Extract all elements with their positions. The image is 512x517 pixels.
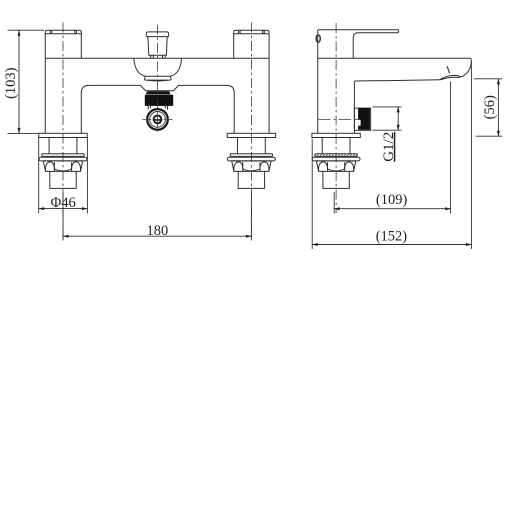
- svg-text:(152): (152): [376, 228, 408, 244]
- body bridge underside with diverter boss: [81, 85, 234, 133]
- dimension (103): [8, 30, 45, 133]
- right mounting base: [227, 133, 275, 188]
- left mounting base: [39, 133, 87, 188]
- side mounting base: [312, 133, 360, 188]
- diverter pull knob cap: [146, 32, 168, 37]
- right leg outer edge: [268, 58, 270, 133]
- side washer hatching: [314, 154, 358, 156]
- dimension (109): [334, 82, 450, 214]
- dimension (152): [312, 61, 471, 249]
- dimension 180: [63, 192, 251, 241]
- left leg centerline: [62, 23, 64, 239]
- left handle block: [45, 30, 81, 58]
- dimension Phi46: [39, 137, 88, 214]
- svg-text:(103): (103): [3, 67, 19, 99]
- right handle block: [234, 30, 269, 58]
- diverter knob body: [148, 37, 167, 56]
- diverter knurled collar (black): [145, 91, 173, 106]
- side spout: [318, 58, 472, 81]
- shower hose outlet neck: [148, 106, 167, 110]
- shower hose outlet circles: [147, 109, 168, 130]
- shower outlet port G1/2: [354, 108, 370, 130]
- diverter axis centerline: [157, 25, 159, 133]
- svg-text:G1/2: G1/2: [381, 132, 397, 162]
- side body centerline: [335, 23, 337, 213]
- port axis centerline: [319, 119, 359, 121]
- svg-text:180: 180: [147, 223, 169, 239]
- svg-text:(56): (56): [482, 95, 498, 119]
- side body column: [318, 30, 355, 134]
- outlet crosshair horizontal centerline: [142, 118, 172, 120]
- diverter knob feet: [151, 55, 165, 58]
- svg-text:(109): (109): [376, 192, 408, 208]
- dimension (56): [474, 79, 503, 136]
- side lever handle: [316, 30, 399, 59]
- body bridge top edge: [45, 57, 269, 59]
- spout bowl body: [134, 59, 182, 77]
- left leg outer edge: [44, 58, 46, 133]
- right leg centerline: [250, 23, 252, 239]
- dimension G1/2: [372, 107, 401, 130]
- spout bowl rim: [144, 76, 171, 81]
